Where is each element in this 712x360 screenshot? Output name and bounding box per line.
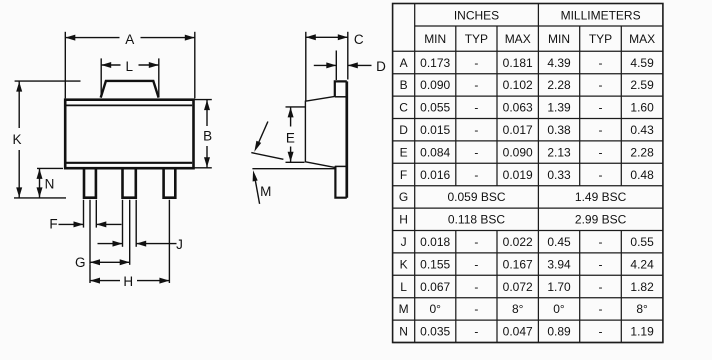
svg-text:-: -	[599, 78, 603, 92]
dim H arrows	[90, 278, 100, 284]
svg-text:TYP: TYP	[465, 32, 488, 46]
dim C line	[306, 36, 348, 38]
svg-text:0.035: 0.035	[420, 325, 450, 339]
svg-text:3.94: 3.94	[547, 257, 571, 271]
svg-text:-: -	[599, 325, 603, 339]
svg-text:MILLIMETERS: MILLIMETERS	[561, 8, 641, 22]
svg-text:G: G	[399, 190, 408, 204]
svg-text:0.017: 0.017	[503, 123, 533, 137]
svg-text:0.118 BSC: 0.118 BSC	[448, 213, 505, 227]
svg-text:-: -	[599, 257, 603, 271]
dim H extension lines	[90, 200, 169, 283]
dim K line	[18, 81, 20, 198]
svg-text:4.39: 4.39	[547, 56, 571, 70]
dim F extension lines	[84, 200, 97, 228]
dim D extension line	[335, 51, 337, 81]
svg-text:-: -	[474, 168, 478, 182]
svg-text:1.82: 1.82	[630, 280, 654, 294]
svg-text:1.49 BSC: 1.49 BSC	[575, 190, 627, 204]
svg-text:TYP: TYP	[589, 32, 612, 46]
svg-text:0.015: 0.015	[420, 123, 450, 137]
dim E line	[290, 107, 292, 162]
svg-text:-: -	[599, 56, 603, 70]
dim B arrows	[204, 100, 210, 110]
dim G line	[90, 261, 130, 263]
svg-text:0.018: 0.018	[420, 235, 450, 249]
svg-text:0.102: 0.102	[503, 78, 533, 92]
dim N line	[39, 168, 41, 198]
svg-text:N: N	[45, 176, 55, 191]
svg-text:0.090: 0.090	[503, 145, 533, 159]
svg-text:2.28: 2.28	[547, 78, 571, 92]
svg-text:0.155: 0.155	[420, 257, 450, 271]
dim M slant reference line	[251, 153, 283, 160]
dim E arrows	[288, 107, 294, 117]
dim K bottom extension line	[14, 197, 66, 199]
table row M	[399, 302, 648, 316]
table row K	[400, 257, 655, 271]
svg-text:H: H	[399, 213, 408, 227]
mounting tab front view	[101, 81, 159, 98]
dim D arrows	[326, 62, 336, 68]
svg-text:A: A	[125, 32, 134, 47]
dim G extension lines	[90, 200, 130, 265]
svg-text:N: N	[399, 325, 408, 339]
dim M horizontal reference line	[252, 168, 335, 170]
dim B line	[206, 100, 208, 168]
svg-text:D: D	[376, 59, 386, 74]
svg-text:MAX: MAX	[505, 32, 531, 46]
table row A	[400, 56, 655, 70]
svg-text:MIN: MIN	[548, 32, 570, 46]
svg-text:C: C	[399, 101, 408, 115]
svg-text:-: -	[599, 280, 603, 294]
dim L extension lines	[101, 58, 159, 97]
side view lead	[335, 166, 347, 197]
svg-text:0.173: 0.173	[420, 56, 450, 70]
side view tab	[335, 81, 347, 96]
svg-text:0.055: 0.055	[420, 101, 450, 115]
svg-text:-: -	[474, 280, 478, 294]
svg-text:0.090: 0.090	[420, 78, 450, 92]
svg-text:-: -	[474, 257, 478, 271]
svg-text:0.48: 0.48	[630, 168, 654, 182]
dim C arrows	[306, 34, 316, 40]
svg-text:E: E	[286, 131, 295, 146]
side view body outline	[305, 96, 334, 167]
dim A line	[65, 37, 195, 39]
table row C	[399, 101, 654, 115]
svg-text:4.24: 4.24	[630, 257, 654, 271]
svg-text:0.38: 0.38	[547, 123, 571, 137]
dim L line	[101, 64, 159, 66]
svg-text:0.167: 0.167	[503, 257, 533, 271]
svg-text:-: -	[474, 302, 478, 316]
dim J arrow lines	[98, 243, 177, 245]
table row L	[400, 280, 654, 294]
svg-text:8°: 8°	[636, 302, 648, 316]
svg-text:F: F	[49, 217, 57, 232]
side view right spine	[345, 81, 348, 197]
svg-text:8°: 8°	[512, 302, 524, 316]
pin 1	[84, 169, 96, 197]
table row E	[400, 145, 655, 159]
svg-text:F: F	[400, 168, 407, 182]
svg-text:0.55: 0.55	[630, 235, 654, 249]
body bottom inner line	[67, 162, 193, 164]
dim B extension lines	[194, 100, 212, 168]
svg-text:M: M	[399, 302, 409, 316]
svg-text:0.067: 0.067	[420, 280, 450, 294]
dim M upper leader arrow	[258, 122, 268, 145]
svg-text:0.43: 0.43	[630, 123, 654, 137]
dim J extension lines	[123, 200, 137, 247]
table row B	[400, 78, 655, 92]
svg-text:0.022: 0.022	[503, 235, 533, 249]
svg-text:0.89: 0.89	[547, 325, 571, 339]
table row F	[400, 168, 654, 182]
svg-text:0.016: 0.016	[420, 168, 450, 182]
svg-text:0°: 0°	[553, 302, 565, 316]
table row D	[399, 123, 654, 137]
table row H	[399, 213, 626, 227]
svg-text:D: D	[399, 123, 408, 137]
dim H line	[90, 280, 169, 282]
svg-text:2.59: 2.59	[630, 78, 654, 92]
svg-text:K: K	[400, 257, 408, 271]
svg-text:-: -	[474, 145, 478, 159]
svg-text:G: G	[75, 255, 86, 270]
svg-text:1.70: 1.70	[547, 280, 571, 294]
dim M lower leader arrow	[255, 177, 260, 204]
dim D arrow lines	[314, 64, 372, 66]
svg-text:B: B	[203, 129, 212, 144]
svg-text:0.063: 0.063	[503, 101, 533, 115]
svg-text:L: L	[400, 280, 407, 294]
dim E extension lines	[286, 107, 306, 162]
svg-text:-: -	[599, 123, 603, 137]
svg-text:1.60: 1.60	[630, 101, 654, 115]
svg-text:-: -	[474, 56, 478, 70]
svg-text:INCHES: INCHES	[454, 8, 499, 22]
svg-text:-: -	[599, 101, 603, 115]
svg-text:0.181: 0.181	[503, 56, 533, 70]
svg-text:-: -	[474, 78, 478, 92]
svg-text:4.59: 4.59	[630, 56, 654, 70]
svg-text:0.45: 0.45	[547, 235, 571, 249]
svg-text:1.39: 1.39	[547, 101, 571, 115]
dim L arrows	[101, 62, 111, 68]
svg-text:0.059 BSC: 0.059 BSC	[447, 190, 505, 204]
package body front view	[65, 100, 193, 169]
svg-text:MIN: MIN	[424, 32, 446, 46]
svg-text:J: J	[176, 237, 183, 252]
body top inner line	[67, 104, 193, 106]
dim A extension lines	[65, 32, 195, 99]
svg-text:-: -	[599, 302, 603, 316]
svg-text:-: -	[474, 101, 478, 115]
dim G arrows	[90, 259, 100, 265]
dimension table grid	[393, 4, 663, 343]
dim A arrows	[65, 35, 75, 41]
svg-text:0.084: 0.084	[420, 145, 450, 159]
svg-text:C: C	[354, 32, 364, 47]
dim J arrows	[113, 241, 123, 247]
dim F arrows	[74, 221, 84, 227]
svg-text:J: J	[401, 235, 407, 249]
dim C extension lines	[306, 32, 348, 101]
svg-text:2.13: 2.13	[547, 145, 571, 159]
svg-text:0.019: 0.019	[503, 168, 533, 182]
dim N arrows	[37, 169, 43, 179]
svg-text:0.047: 0.047	[503, 325, 533, 339]
svg-text:M: M	[260, 184, 271, 199]
svg-text:-: -	[474, 123, 478, 137]
svg-text:1.19: 1.19	[630, 325, 654, 339]
svg-text:2.28: 2.28	[630, 145, 654, 159]
svg-text:MAX: MAX	[629, 32, 655, 46]
svg-text:0.072: 0.072	[503, 280, 533, 294]
svg-text:-: -	[474, 325, 478, 339]
table row G	[399, 190, 627, 204]
svg-text:B: B	[400, 78, 408, 92]
svg-text:2.99 BSC: 2.99 BSC	[575, 213, 627, 227]
svg-text:-: -	[599, 168, 603, 182]
svg-text:0°: 0°	[429, 302, 441, 316]
pin 3	[164, 169, 176, 197]
svg-text:0.33: 0.33	[547, 168, 571, 182]
svg-text:-: -	[599, 235, 603, 249]
svg-text:L: L	[125, 59, 133, 74]
table row J	[401, 235, 655, 249]
svg-text:E: E	[400, 145, 408, 159]
dim N top extension line	[37, 167, 63, 169]
pin 2	[123, 169, 136, 197]
svg-text:-: -	[474, 235, 478, 249]
svg-text:H: H	[123, 274, 133, 289]
svg-text:K: K	[12, 132, 21, 147]
dim F arrow lines	[59, 223, 122, 225]
table row N	[399, 325, 654, 339]
dim K top extension line	[15, 80, 81, 82]
svg-text:-: -	[599, 145, 603, 159]
dim K arrows	[16, 82, 22, 92]
svg-text:A: A	[400, 56, 408, 70]
